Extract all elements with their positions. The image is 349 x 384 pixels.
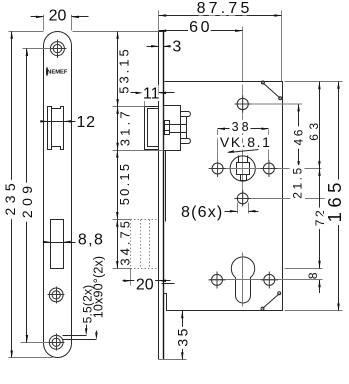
dimension 3: [147, 38, 182, 55]
dimension 8(6x): [181, 203, 259, 222]
case vertical centerline: [242, 85, 244, 307]
svg-text:35: 35: [174, 326, 190, 346]
deadbolt cutout front view: [51, 220, 64, 269]
latch head side view: [145, 107, 159, 150]
svg-text:12: 12: [76, 114, 95, 131]
bottom lever: [261, 292, 281, 310]
svg-text:20: 20: [136, 277, 154, 294]
dimension 235: [2, 31, 53, 358]
dimension 21.5: [291, 165, 305, 198]
svg-text:46: 46: [291, 127, 305, 145]
dimension 20 throw: [123, 269, 171, 294]
svg-text:60: 60: [189, 19, 212, 36]
lower screw hole 2: [48, 334, 65, 351]
dimension 53.15: [113, 31, 145, 106]
dimension 46: [291, 104, 305, 169]
middle fixing hole: [235, 190, 327, 207]
svg-text:20: 20: [49, 7, 67, 24]
svg-text:8: 8: [306, 270, 320, 279]
faceplate side view: [159, 32, 164, 360]
NEMEF logo: [47, 68, 68, 76]
latch shaft: [170, 125, 187, 133]
latch tail bottom arm: [181, 139, 191, 144]
dimension 20 top: [31, 7, 89, 30]
svg-text:38: 38: [232, 120, 252, 134]
dimension 72: [313, 169, 327, 269]
dimension 34.75: [113, 218, 133, 268]
svg-text:21.5: 21.5: [291, 165, 305, 198]
latch housing: [164, 106, 181, 151]
label VK.8.1: [220, 134, 272, 153]
ext line case bottom right: [285, 310, 343, 312]
lock case outline: [164, 82, 283, 311]
cylinder hole euro profile: [231, 253, 254, 307]
lower screw hole 1: [48, 287, 65, 304]
svg-text:VK.8.1: VK.8.1: [220, 134, 272, 150]
svg-text:209: 209: [19, 182, 35, 219]
dimension 35: [159, 311, 191, 360]
svg-text:NEMEF: NEMEF: [47, 70, 68, 76]
dimension 38: [218, 120, 269, 162]
leader line 10x90: [63, 331, 98, 340]
cylinder side hole left: [209, 272, 226, 289]
latch tail top arm: [181, 112, 191, 117]
svg-text:53.15: 53.15: [117, 46, 132, 94]
dimension 60: [159, 19, 243, 82]
follower circle: [230, 156, 255, 181]
top screw hole: [49, 40, 67, 59]
dimension 11: [131, 86, 175, 107]
follower upper tabs: [239, 156, 248, 163]
latch tail bar: [186, 117, 188, 139]
dimension 87.75: [159, 0, 282, 82]
svg-text:11: 11: [143, 86, 160, 103]
ext line cylinder center right: [285, 268, 323, 270]
svg-text:31.7: 31.7: [118, 108, 133, 146]
latch bolt front view: [48, 107, 64, 150]
faceplate front view outline: [44, 32, 72, 358]
svg-text:50.15: 50.15: [117, 162, 132, 206]
top lever: [261, 81, 281, 100]
dimension 209: [19, 49, 51, 343]
follower side hole left: [209, 160, 226, 177]
dimension 165: [324, 81, 345, 311]
svg-text:10x90°(2x): 10x90°(2x): [92, 256, 106, 319]
svg-text:8(6x): 8(6x): [181, 204, 223, 221]
dimension 31.7: [113, 107, 164, 151]
svg-text:3: 3: [172, 38, 181, 55]
dimension 50.15: [116, 150, 132, 219]
cylinder side hole right: [261, 272, 278, 289]
svg-text:165: 165: [324, 178, 345, 222]
dimension 12: [40, 114, 96, 131]
follower side hole right: [261, 160, 278, 177]
dimension 63: [307, 82, 321, 169]
follower lower tab: [241, 175, 247, 181]
dimension 8,8: [43, 232, 104, 249]
svg-text:235: 235: [2, 179, 18, 216]
leader line 5.5: [63, 325, 88, 336]
svg-text:8,8: 8,8: [78, 232, 104, 249]
svg-text:87.75: 87.75: [197, 0, 253, 17]
deadbolt thrown dotted box: [131, 220, 159, 269]
ext line case top right: [285, 81, 343, 83]
latch guide block: [165, 121, 170, 135]
top fixing hole: [235, 96, 303, 113]
cylinder screw tick: [162, 283, 175, 285]
horizontal centerline through follower: [209, 168, 322, 170]
cylinder horizontal centerline: [210, 279, 323, 281]
svg-text:63: 63: [307, 118, 321, 140]
dimension 8: [306, 270, 321, 293]
case inner front wall: [165, 151, 167, 222]
follower square: [237, 163, 250, 175]
link line between views: [73, 31, 159, 33]
